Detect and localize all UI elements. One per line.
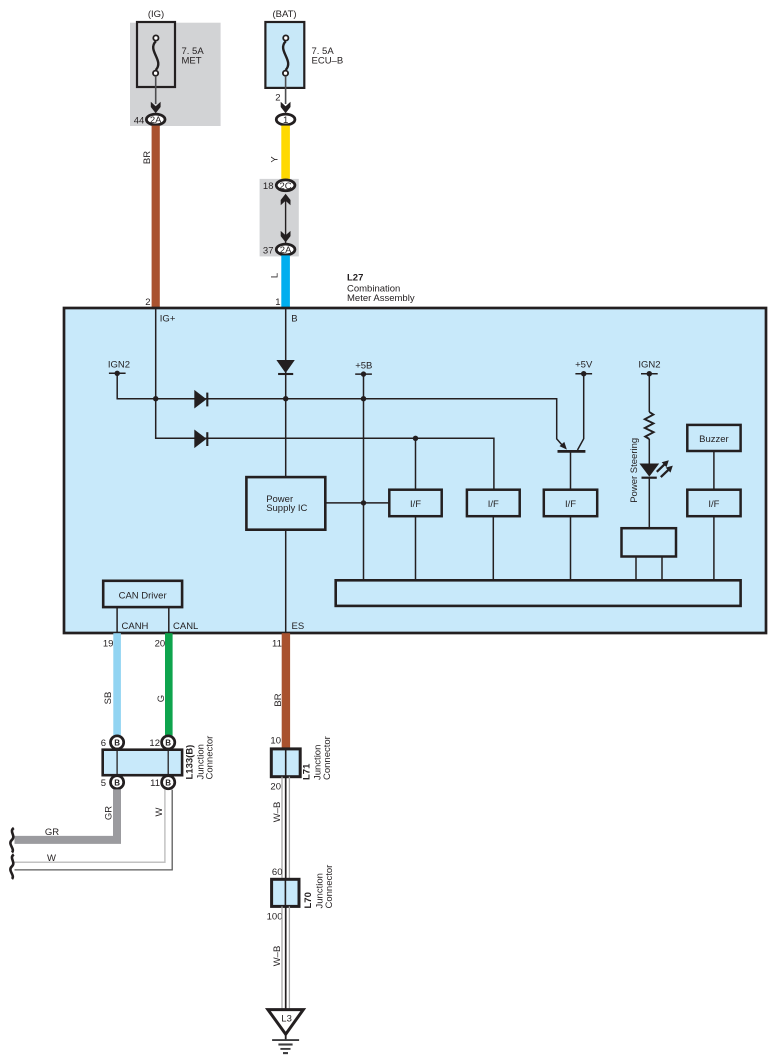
interface block I/F 2 (467, 490, 520, 517)
svg-text:GR: GR (45, 827, 59, 838)
interface block I/F 1 (389, 490, 441, 517)
wire I/F 1 to bus (415, 516, 417, 580)
fuse MET symbol (153, 35, 158, 75)
svg-text:I/F: I/F (565, 499, 576, 510)
svg-text:IGN2: IGN2 (108, 359, 130, 370)
svg-text:1: 1 (283, 115, 288, 126)
svg-text:B: B (291, 313, 297, 324)
interface block I/F 4 (687, 490, 740, 517)
svg-text:BR: BR (273, 693, 284, 706)
combination meter assembly box L27 (64, 308, 766, 633)
wire SB (113, 633, 121, 735)
wire IGN2 down (116, 373, 118, 399)
junction dot row1 at B (283, 396, 288, 401)
junction dot row1 at IG+ (153, 396, 158, 401)
svg-text:(IG): (IG) (148, 9, 164, 20)
svg-text:Connector: Connector (205, 736, 216, 780)
svg-text:W: W (47, 853, 56, 864)
svg-text:I/F: I/F (410, 499, 421, 510)
wire I/F 2 to bus (492, 516, 494, 580)
ground point L3 (268, 1010, 303, 1035)
fuse ECU-B box (265, 22, 304, 88)
svg-text:2A: 2A (150, 115, 162, 126)
wire buzzer to I/F 4 (713, 451, 715, 490)
svg-text:L: L (269, 273, 280, 278)
power supply IC U1 (246, 477, 325, 530)
svg-text:11: 11 (150, 778, 160, 789)
svg-text:18: 18 (263, 181, 274, 192)
svg-text:BR: BR (142, 151, 153, 164)
svg-text:Buzzer: Buzzer (699, 434, 729, 445)
arrow into connector 1 (281, 102, 291, 114)
connector oval 2A (meter side) (276, 244, 295, 255)
svg-text:5: 5 (101, 778, 106, 789)
resistor R1 (645, 412, 654, 439)
svg-text:20: 20 (155, 638, 166, 649)
svg-text:Meter Assembly: Meter Assembly (347, 293, 415, 304)
break symbol wire W continues (10, 855, 13, 880)
svg-text:W–B: W–B (272, 802, 283, 823)
svg-text:GR: GR (103, 806, 114, 820)
junction connector L71 body (271, 749, 300, 777)
transistor emitter arrow (560, 442, 567, 450)
svg-text:L3: L3 (281, 1014, 292, 1025)
break symbol wire GR continues (10, 828, 13, 853)
connector oval 2C (276, 180, 295, 191)
svg-text:100: 100 (267, 911, 283, 922)
wire resistor to LED (648, 439, 650, 464)
LED D4 (639, 464, 659, 477)
svg-text:(BAT): (BAT) (272, 9, 296, 20)
wire G (165, 633, 173, 735)
svg-text:1: 1 (275, 297, 280, 308)
svg-text:CANH: CANH (122, 621, 149, 632)
svg-text:W–B: W–B (272, 946, 283, 967)
svg-text:L133(B): L133(B) (185, 745, 196, 780)
arrow up to 2C (281, 194, 291, 206)
svg-text:2A: 2A (280, 245, 292, 256)
svg-text:20: 20 (270, 782, 281, 793)
interface block I/F 3 (544, 490, 597, 517)
svg-text:I/F: I/F (708, 499, 719, 510)
svg-text:IGN2: IGN2 (638, 359, 660, 370)
wire down to I/F 1 (415, 438, 417, 489)
wire I/F 4 to bus (713, 516, 715, 580)
svg-text:IG+: IG+ (160, 313, 176, 324)
junction dot row2 (413, 436, 418, 441)
svg-text:2: 2 (275, 93, 280, 104)
wire transistor to I/F 3 (570, 451, 572, 489)
fuse MET box (137, 22, 175, 87)
node B wire (285, 308, 287, 477)
fuse ECU-B symbol (283, 35, 289, 75)
arrow into connector 2A (151, 102, 161, 114)
wire fuse MET to connector (155, 76, 157, 104)
wire CANL inside (168, 607, 170, 633)
svg-text:Power Steering: Power Steering (629, 438, 640, 503)
svg-text:B: B (165, 778, 171, 787)
wire W-B from L71 to L70 (282, 777, 289, 880)
svg-text:37: 37 (263, 245, 274, 256)
svg-text:11: 11 (272, 638, 282, 649)
svg-text:19: 19 (103, 638, 114, 649)
wire horizontal row 2 (156, 438, 494, 490)
svg-text:Connector: Connector (322, 736, 333, 780)
connector oval 2A (IG side) (146, 114, 165, 125)
svg-text:MET: MET (182, 56, 202, 67)
wire horizontal row 1 (117, 398, 557, 400)
wire fuse ECU-B to connector (285, 76, 287, 104)
wire IGN2 to resistor (648, 374, 650, 412)
svg-text:12: 12 (149, 738, 160, 749)
wire W-B from L70 to ground (282, 906, 289, 1009)
svg-text:+5B: +5B (355, 361, 372, 372)
svg-text:Y: Y (269, 156, 280, 163)
junction dot +5B at PSU row (361, 500, 366, 505)
ground hatch (272, 1040, 299, 1053)
svg-text:2C: 2C (280, 181, 292, 192)
wire W (15, 790, 173, 870)
internal bus bar (336, 580, 741, 606)
diode D3 on row 2 (194, 430, 206, 449)
diode D1 on B line (276, 360, 294, 373)
CAN driver block U2 (103, 581, 182, 607)
svg-text:2: 2 (145, 297, 150, 308)
svg-text:CAN Driver: CAN Driver (119, 591, 167, 602)
svg-text:44: 44 (134, 116, 145, 127)
driver block (unlabeled) (622, 528, 677, 556)
svg-text:ES: ES (292, 621, 305, 632)
transistor Q1 base bar (558, 450, 586, 453)
node IG+ wire (155, 308, 157, 438)
wire CANH inside (116, 607, 118, 633)
svg-text:L70: L70 (303, 892, 314, 908)
svg-text:L71: L71 (302, 763, 313, 780)
shaded block behind fuse MET (130, 23, 221, 126)
wire BR from fuse to meter (152, 126, 160, 308)
wire I/F 3 to bus (570, 516, 572, 580)
svg-text:SB: SB (103, 692, 114, 705)
svg-text:G: G (156, 695, 167, 702)
buzzer block (687, 425, 740, 451)
svg-text:10: 10 (270, 736, 281, 747)
svg-text:B: B (165, 739, 171, 748)
wire L blue (281, 255, 290, 308)
svg-text:6: 6 (101, 738, 106, 749)
ground stem (285, 1034, 287, 1040)
wire row1 corner down to transistor (557, 398, 563, 446)
svg-text:B: B (114, 739, 120, 748)
wire PSU right to I/F 1 (325, 502, 389, 504)
svg-text:W: W (154, 807, 165, 816)
svg-text:B: B (114, 778, 120, 787)
svg-text:I/F: I/F (488, 499, 499, 510)
connector oval 1 (276, 114, 295, 125)
arrow down to 2A (281, 231, 291, 243)
junction connector L133(B) body (103, 750, 182, 776)
wire BR to ES (282, 633, 290, 749)
driver block legs to bus (635, 557, 637, 581)
svg-text:Connector: Connector (324, 865, 335, 909)
diode D2 on row 1 (194, 390, 206, 409)
svg-text:60: 60 (272, 867, 283, 878)
wire GR (15, 789, 118, 840)
svg-text:CANL: CANL (173, 621, 198, 632)
junction dot row1 at +5B (361, 396, 366, 401)
wire ES from PSU down (285, 530, 287, 633)
wire +5B down to bus (363, 374, 365, 580)
svg-text:+5V: +5V (575, 359, 593, 370)
wire LED to driver block (648, 478, 650, 529)
svg-text:L27: L27 (347, 273, 363, 284)
junction connector L70 body (272, 879, 299, 906)
wire +5V down to transistor (578, 374, 584, 450)
LED emission arrows (657, 460, 673, 477)
svg-text:Supply IC: Supply IC (266, 503, 307, 514)
shaded block behind junction 2C/2A (260, 179, 299, 257)
wire Y yellow (281, 126, 290, 180)
svg-text:ECU–B: ECU–B (312, 56, 344, 67)
wire between 2C and 2A (285, 195, 287, 246)
